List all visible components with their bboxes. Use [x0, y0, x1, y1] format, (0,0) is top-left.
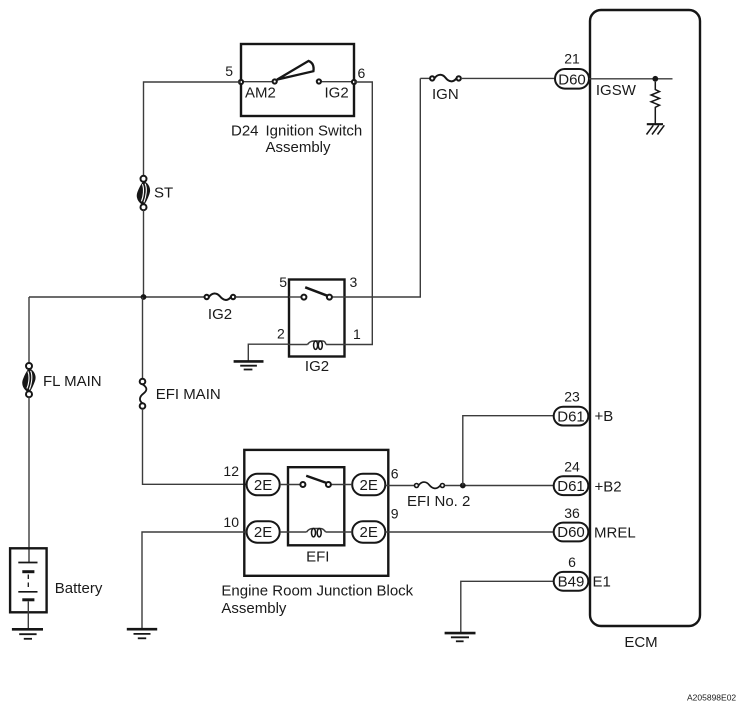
svg-text:2E: 2E	[254, 477, 272, 494]
svg-text:B49: B49	[558, 574, 585, 591]
wire stub fixed contact to pin6	[321, 81, 352, 83]
svg-text:Assembly: Assembly	[266, 139, 332, 156]
svg-text:Battery: Battery	[55, 580, 103, 597]
ground at relay pin 2	[234, 361, 264, 369]
battery	[10, 548, 47, 629]
svg-text:D24: D24	[231, 123, 259, 140]
fuse EFI MAIN	[140, 379, 147, 409]
svg-text:6: 6	[568, 554, 576, 570]
EFI MAIN branch from junction	[142, 297, 144, 379]
svg-text:D61: D61	[557, 408, 585, 425]
EFI relay switch row wires	[280, 484, 302, 486]
wire relay pin3 up to IGN	[345, 78, 421, 297]
junction dot at ST branch	[141, 294, 147, 300]
wire IGSW inside ECM	[589, 78, 673, 80]
resistor R (IGSW pull-down)	[651, 82, 659, 124]
relay EFI inner box	[288, 467, 344, 545]
ignition switch assembly box D24	[241, 44, 354, 116]
wire up to +B	[463, 416, 554, 486]
svg-text:AM2: AM2	[245, 85, 276, 102]
junction block outer box	[244, 450, 388, 576]
svg-text:ECM: ECM	[624, 634, 657, 651]
svg-text:Ignition Switch: Ignition Switch	[266, 123, 363, 140]
svg-text:2: 2	[277, 326, 285, 342]
svg-text:Assembly: Assembly	[221, 600, 287, 617]
pin 5 terminal circle	[239, 80, 243, 84]
svg-text:2E: 2E	[254, 524, 272, 541]
wire IG2 fuse to relay pin 5	[235, 296, 289, 298]
pin 6 terminal circle	[352, 80, 356, 84]
svg-text:IGN: IGN	[432, 86, 459, 103]
svg-text:24: 24	[564, 458, 580, 474]
svg-text:D60: D60	[557, 524, 585, 541]
svg-text:IG2: IG2	[208, 306, 232, 323]
oval terminal 2E pin9	[352, 521, 385, 543]
oval terminal 2E pin12	[247, 474, 280, 496]
svg-text:EFI MAIN: EFI MAIN	[156, 386, 221, 403]
wire pin5 to left	[144, 82, 242, 176]
ECM pin 36 connector D60	[554, 523, 589, 542]
ground at E1	[445, 633, 476, 641]
wire pin9 to MREL	[385, 531, 553, 533]
switch contact circles D24	[273, 79, 277, 83]
EFI relay switch blade	[306, 476, 327, 483]
EFI relay switch contacts	[300, 482, 305, 487]
svg-text:EFI: EFI	[306, 549, 329, 566]
svg-text:D60: D60	[558, 71, 586, 88]
oval terminal 2E pin10	[247, 521, 280, 543]
wire E1 to ground	[461, 581, 554, 633]
svg-text:1: 1	[353, 326, 361, 342]
fuse EFI No. 2	[415, 482, 445, 488]
svg-text:A205898E02: A205898E02	[687, 693, 736, 703]
chassis ground inside ECM	[647, 124, 665, 134]
svg-text:MREL: MREL	[594, 525, 636, 542]
svg-text:2E: 2E	[360, 524, 378, 541]
wire pin6 block to EFI No2 fuse	[385, 485, 414, 487]
ground below battery	[12, 629, 43, 639]
fuse IGN	[420, 75, 461, 82]
svg-text:6: 6	[391, 465, 399, 481]
wire EFI No2 fuse to ECM +B2	[445, 485, 554, 487]
fusible link FL MAIN	[23, 363, 35, 397]
relay coil IG2	[289, 341, 345, 349]
svg-text:6: 6	[358, 65, 366, 81]
ECM pin 21 connector D60	[555, 69, 589, 89]
svg-text:EFI No. 2: EFI No. 2	[407, 493, 470, 510]
ECM pin 6 connector B49	[554, 572, 589, 591]
relay switch contacts	[289, 296, 301, 298]
svg-text:5: 5	[279, 274, 287, 290]
wire stub pin5 to movable contact	[243, 81, 273, 83]
svg-text:10: 10	[223, 514, 239, 530]
svg-text:+B2: +B2	[595, 478, 622, 495]
svg-text:12: 12	[223, 463, 239, 479]
main horizontal wire from FL MAIN corner to IG2 fuse	[29, 296, 205, 298]
svg-text:36: 36	[564, 505, 580, 521]
wire ignition pin6 down to relay pin1	[345, 82, 373, 345]
svg-text:IG2: IG2	[325, 85, 349, 102]
svg-text:5: 5	[225, 63, 233, 79]
svg-text:+B: +B	[595, 408, 614, 425]
node junction dot IGSW	[652, 76, 658, 82]
svg-text:23: 23	[564, 389, 580, 405]
svg-text:21: 21	[564, 51, 580, 67]
svg-text:IG2: IG2	[305, 358, 329, 375]
FL MAIN branch wire down	[28, 297, 30, 363]
wire IGN fuse to ECM pin 21	[461, 77, 556, 79]
oval terminal 2E pin6	[352, 474, 385, 496]
svg-text:2E: 2E	[360, 477, 378, 494]
svg-text:3: 3	[350, 274, 358, 290]
svg-text:9: 9	[391, 506, 399, 522]
wire pin10 to ground	[142, 532, 247, 629]
ECM U1	[590, 10, 700, 626]
relay switch blade	[305, 287, 327, 295]
wire EFI MAIN down to junction block pin 12	[143, 409, 248, 485]
relay IG2 box	[289, 280, 345, 357]
ground at pin 10	[127, 629, 157, 638]
wire ST to main junction	[143, 210, 145, 297]
ECM pin 24 connector D61	[554, 476, 589, 495]
switch blade inside D24	[277, 61, 314, 80]
wire relay pin2 to ground	[248, 344, 289, 361]
svg-text:D61: D61	[557, 478, 585, 495]
EFI relay coil	[280, 529, 353, 537]
svg-text:ST: ST	[154, 185, 173, 202]
svg-text:E1: E1	[593, 574, 611, 591]
svg-text:Engine Room Junction Block: Engine Room Junction Block	[221, 583, 413, 600]
junction dot +B branch	[460, 483, 466, 489]
svg-text:FL MAIN: FL MAIN	[43, 373, 102, 390]
ECM pin 23 connector D61	[554, 407, 589, 426]
fuse IG2	[205, 293, 236, 299]
fusible link ST	[138, 176, 150, 210]
wire FL MAIN to battery	[28, 397, 30, 562]
svg-text:IGSW: IGSW	[596, 82, 637, 99]
